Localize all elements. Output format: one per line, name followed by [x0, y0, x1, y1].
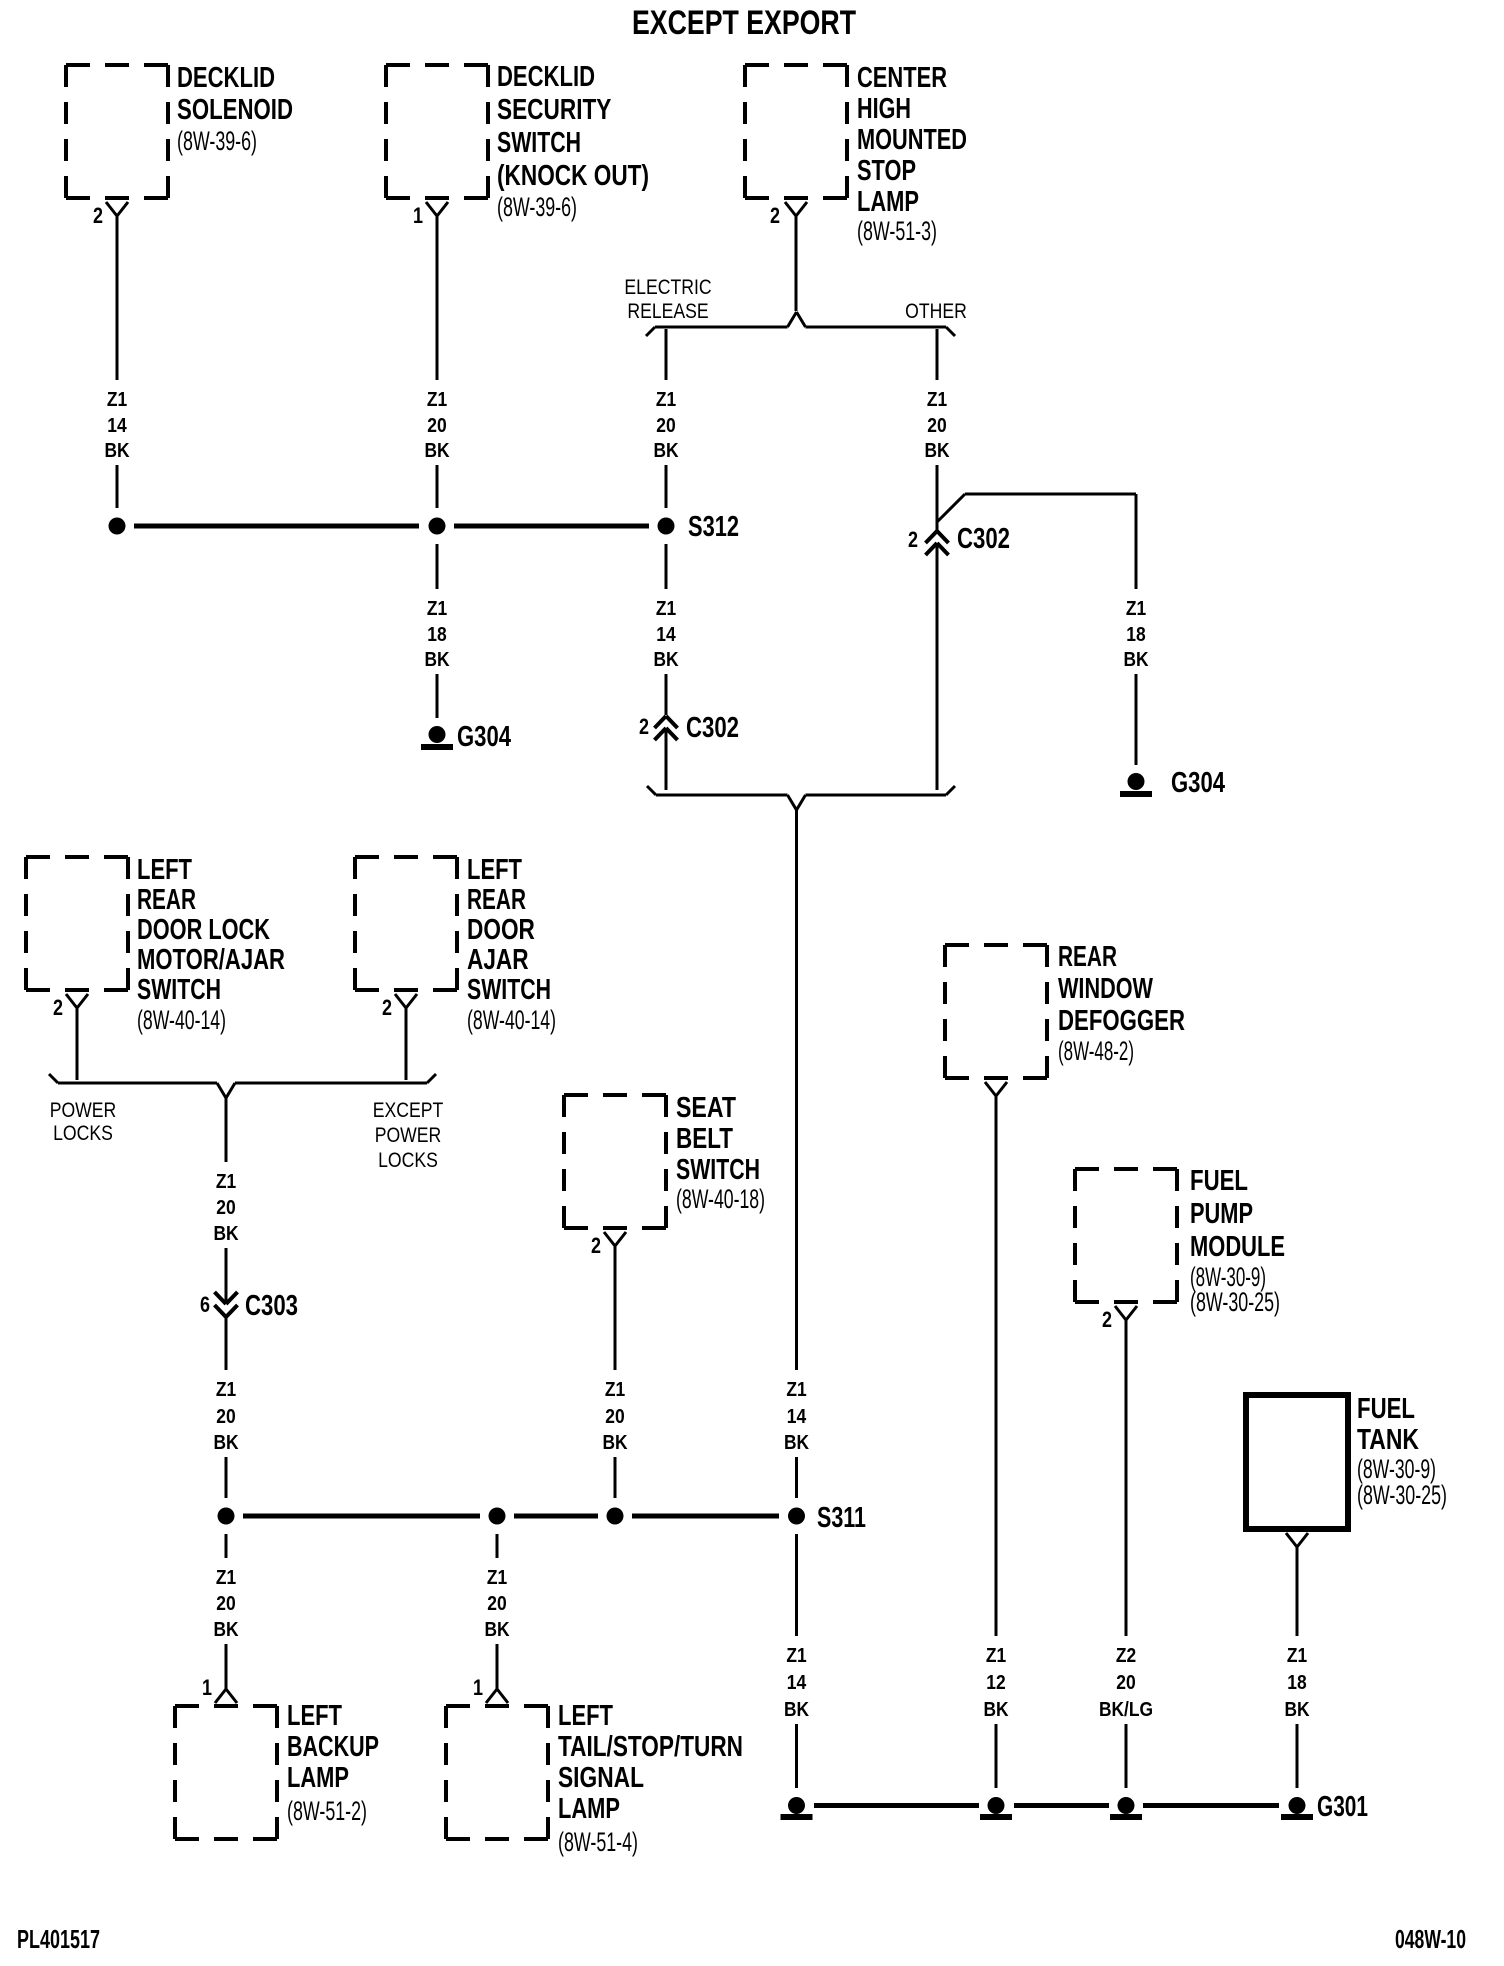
svg-text:REAR: REAR	[467, 884, 526, 916]
connector C303, pin 6	[200, 1290, 298, 1322]
svg-text:1: 1	[413, 203, 423, 228]
svg-text:Z1: Z1	[107, 389, 127, 411]
pin 2 of DECKLID SOLENOID	[93, 202, 128, 228]
svg-text:18: 18	[427, 624, 446, 646]
svg-text:LOCKS: LOCKS	[378, 1149, 438, 1172]
svg-text:BELT: BELT	[676, 1123, 733, 1155]
svg-text:20: 20	[427, 415, 446, 437]
svg-text:(8W-51-2): (8W-51-2)	[287, 1796, 367, 1826]
svg-text:6: 6	[200, 1292, 210, 1317]
svg-text:TANK: TANK	[1357, 1424, 1419, 1456]
pin 2 of LEFT REAR DOOR AJAR SWITCH	[382, 994, 417, 1020]
svg-text:20: 20	[216, 1197, 235, 1219]
svg-text:S312: S312	[688, 511, 739, 543]
footer page code 048W-10	[1395, 1924, 1466, 1954]
ground G304 (right)	[1121, 767, 1226, 799]
pin 1 of DECKLID SECURITY SWITCH	[413, 202, 448, 228]
svg-text:MODULE: MODULE	[1190, 1231, 1285, 1263]
branch wire from C302 to right ground run	[937, 494, 1136, 522]
ground symbol (defogger branch)	[981, 1797, 1012, 1820]
junction dot (backup lamp branch)	[218, 1508, 235, 1525]
svg-text:HIGH: HIGH	[857, 93, 911, 125]
splice S312	[658, 511, 740, 543]
svg-text:AJAR: AJAR	[467, 944, 529, 976]
svg-text:Z1: Z1	[927, 389, 947, 411]
svg-text:2: 2	[770, 203, 780, 228]
wire Z1 20 BK (bracket down to connector C303)	[213, 1096, 239, 1302]
svg-text:(8W-51-3): (8W-51-3)	[857, 216, 937, 246]
svg-text:14: 14	[656, 624, 676, 646]
svg-text:BK: BK	[424, 649, 450, 671]
wire Z1 20 BK (electric release branch down to S312)	[653, 329, 679, 508]
svg-text:DOOR: DOOR	[467, 914, 535, 946]
component box LEFT BACKUP LAMP	[175, 1700, 379, 1839]
svg-text:DEFOGGER: DEFOGGER	[1058, 1005, 1185, 1037]
pin of REAR WINDOW DEFOGGER	[985, 1082, 1007, 1096]
ground symbol (fuel pump branch)	[1111, 1797, 1142, 1820]
bus split bracket (electric release / other)	[646, 312, 955, 336]
svg-text:DECKLID: DECKLID	[497, 61, 595, 93]
svg-text:Z1: Z1	[1287, 1645, 1307, 1667]
wire Z1 18 BK (splice down to ground G304)	[424, 544, 450, 718]
svg-text:MOUNTED: MOUNTED	[857, 124, 967, 156]
svg-text:MOTOR/AJAR: MOTOR/AJAR	[137, 944, 285, 976]
svg-text:C302: C302	[686, 712, 739, 744]
svg-text:BK: BK	[784, 1699, 810, 1721]
wire Z1 20 BK (bus down to left tail/stop/turn lamp)	[484, 1534, 510, 1689]
svg-text:BK: BK	[213, 1619, 239, 1641]
wire from door ajar pin down to power-locks bracket	[405, 1008, 408, 1080]
svg-text:SWITCH: SWITCH	[497, 127, 581, 159]
svg-text:Z1: Z1	[216, 1379, 236, 1401]
svg-text:BK: BK	[1123, 649, 1149, 671]
svg-text:BK: BK	[213, 1432, 239, 1454]
svg-text:C303: C303	[245, 1290, 298, 1322]
svg-text:G304: G304	[1171, 767, 1225, 799]
svg-text:Z1: Z1	[986, 1645, 1006, 1667]
svg-text:OTHER: OTHER	[905, 300, 967, 323]
wire Z1 12 BK (defogger down to ground bus)	[983, 1096, 1009, 1788]
svg-text:SWITCH: SWITCH	[137, 974, 221, 1006]
label ELECTRIC RELEASE	[624, 276, 711, 323]
svg-text:2: 2	[53, 995, 63, 1020]
svg-text:Z1: Z1	[656, 389, 676, 411]
svg-text:BK: BK	[653, 440, 679, 462]
svg-text:BK: BK	[653, 649, 679, 671]
svg-text:048W-10: 048W-10	[1395, 1924, 1466, 1954]
svg-text:LEFT: LEFT	[558, 1700, 613, 1732]
component box DECKLID SOLENOID	[66, 62, 293, 198]
component box FUEL TANK	[1246, 1393, 1447, 1529]
svg-text:LAMP: LAMP	[287, 1762, 349, 1794]
svg-text:ELECTRIC: ELECTRIC	[624, 276, 711, 299]
footer sheet code PL401517	[17, 1924, 100, 1954]
svg-text:2: 2	[639, 714, 649, 739]
wire below C302 (other branch) to merge bracket	[936, 546, 939, 790]
svg-text:REAR: REAR	[1058, 941, 1117, 973]
junction dot (decklid security switch branch)	[429, 518, 446, 535]
connector C302 (on electric release branch), pin 2	[639, 712, 739, 744]
junction dot (seat belt branch)	[607, 1508, 624, 1525]
ground symbol (S311 branch)	[781, 1797, 812, 1820]
svg-text:POWER: POWER	[375, 1124, 442, 1147]
svg-text:Z1: Z1	[1126, 598, 1146, 620]
svg-text:BK: BK	[104, 440, 130, 462]
svg-text:DECKLID: DECKLID	[177, 62, 275, 94]
svg-text:LEFT: LEFT	[137, 854, 192, 886]
svg-text:2: 2	[93, 203, 103, 228]
wire Z2 20 BK/LG (fuel pump module down to ground bus)	[1099, 1320, 1153, 1788]
wire below C302 to merge bracket	[665, 731, 668, 790]
wire Z1 20 BK (bus down to left backup lamp)	[213, 1534, 239, 1689]
wire Z1 20 BK (other branch down to C302)	[924, 329, 950, 531]
svg-text:(8W-39-6): (8W-39-6)	[497, 192, 577, 222]
svg-text:BK: BK	[213, 1223, 239, 1245]
svg-text:WINDOW: WINDOW	[1058, 973, 1153, 1005]
junction dot (decklid solenoid branch)	[109, 518, 126, 535]
svg-text:SEAT: SEAT	[676, 1092, 736, 1124]
svg-text:LAMP: LAMP	[857, 186, 919, 218]
svg-text:(8W-51-4): (8W-51-4)	[558, 1827, 638, 1857]
svg-text:BK: BK	[424, 440, 450, 462]
svg-text:20: 20	[216, 1593, 235, 1615]
splice S311	[788, 1502, 866, 1534]
wire Z1 14 BK (S311 down to ground bus)	[784, 1534, 810, 1788]
wire Z1 14 BK (merge bracket down to splice S311)	[784, 808, 810, 1498]
wire Z1 20 BK (decklid security switch down to splice)	[424, 216, 450, 508]
component box LEFT TAIL/STOP/TURN SIGNAL LAMP	[446, 1700, 743, 1857]
svg-text:SIGNAL: SIGNAL	[558, 1762, 644, 1794]
svg-text:2: 2	[382, 995, 392, 1020]
bus wire splice row S311	[243, 1514, 779, 1519]
svg-text:TAIL/STOP/TURN: TAIL/STOP/TURN	[558, 1731, 743, 1763]
pin of FUEL TANK	[1286, 1533, 1308, 1547]
svg-text:EXCEPT EXPORT: EXCEPT EXPORT	[632, 4, 856, 42]
wire from door lock pin down to power-locks bracket	[76, 1008, 79, 1080]
pin 2 of SEAT BELT SWITCH	[591, 1232, 626, 1258]
svg-text:18: 18	[1287, 1672, 1306, 1694]
svg-text:Z1: Z1	[216, 1171, 236, 1193]
svg-text:18: 18	[1126, 624, 1145, 646]
svg-text:BK: BK	[602, 1432, 628, 1454]
svg-text:20: 20	[927, 415, 946, 437]
svg-text:BK: BK	[1284, 1699, 1310, 1721]
svg-text:SWITCH: SWITCH	[467, 974, 551, 1006]
svg-text:20: 20	[1116, 1672, 1135, 1694]
svg-text:(8W-30-25): (8W-30-25)	[1357, 1480, 1447, 1510]
wire Z1 20 BK (seat belt switch down to bottom bus)	[602, 1246, 628, 1498]
svg-text:POWER: POWER	[50, 1099, 117, 1122]
svg-text:14: 14	[787, 1406, 807, 1428]
svg-text:(8W-39-6): (8W-39-6)	[177, 126, 257, 156]
component box REAR WINDOW DEFOGGER	[945, 941, 1185, 1078]
component box DECKLID SECURITY SWITCH (KNOCK OUT)	[386, 61, 649, 222]
svg-text:14: 14	[107, 415, 127, 437]
svg-text:(8W-40-14): (8W-40-14)	[467, 1005, 556, 1035]
wire from CHMSL pin 2 down to split bracket	[795, 216, 798, 311]
svg-text:BK: BK	[983, 1699, 1009, 1721]
svg-text:SOLENOID: SOLENOID	[177, 94, 293, 126]
pin 1 of LEFT BACKUP LAMP	[202, 1675, 237, 1703]
svg-text:BK: BK	[924, 440, 950, 462]
svg-text:SWITCH: SWITCH	[676, 1154, 760, 1186]
svg-text:BK: BK	[484, 1619, 510, 1641]
wire Z1 18 BK (branch down to ground G304 right)	[1123, 494, 1149, 765]
svg-text:RELEASE: RELEASE	[627, 300, 708, 323]
svg-text:20: 20	[605, 1406, 624, 1428]
svg-text:Z1: Z1	[427, 389, 447, 411]
label OTHER	[905, 300, 967, 323]
svg-text:Z1: Z1	[487, 1567, 507, 1589]
svg-text:(8W-30-25): (8W-30-25)	[1190, 1287, 1280, 1317]
svg-text:(KNOCK OUT): (KNOCK OUT)	[497, 160, 649, 192]
svg-text:(8W-40-18): (8W-40-18)	[676, 1184, 765, 1214]
component box SEAT BELT SWITCH	[564, 1092, 765, 1228]
svg-text:FUEL: FUEL	[1357, 1393, 1415, 1425]
svg-text:G301: G301	[1317, 1791, 1368, 1823]
svg-text:CENTER: CENTER	[857, 62, 947, 94]
pin 2 of FUEL PUMP MODULE	[1102, 1306, 1137, 1332]
svg-text:DOOR LOCK: DOOR LOCK	[137, 914, 270, 946]
svg-text:S311: S311	[817, 1502, 866, 1534]
label POWER LOCKS	[50, 1099, 117, 1145]
title EXCEPT EXPORT	[632, 4, 856, 42]
svg-text:LEFT: LEFT	[287, 1700, 342, 1732]
svg-text:20: 20	[216, 1406, 235, 1428]
svg-text:PUMP: PUMP	[1190, 1198, 1253, 1230]
svg-text:1: 1	[202, 1675, 212, 1700]
bus wire splice row S312	[134, 524, 649, 529]
svg-text:C302: C302	[957, 523, 1010, 555]
component box FUEL PUMP MODULE	[1075, 1165, 1285, 1317]
wire Z1 14 BK (decklid solenoid down to splice)	[104, 216, 130, 508]
pin 2 of CENTER HIGH MOUNTED STOP LAMP	[770, 202, 807, 228]
svg-text:PL401517: PL401517	[17, 1924, 100, 1954]
svg-text:BK/LG: BK/LG	[1099, 1699, 1153, 1721]
svg-text:LEFT: LEFT	[467, 854, 522, 886]
svg-text:20: 20	[656, 415, 675, 437]
pin 1 of LEFT TAIL/STOP/TURN SIGNAL LAMP	[473, 1675, 508, 1703]
svg-text:Z1: Z1	[786, 1645, 806, 1667]
svg-text:14: 14	[787, 1672, 807, 1694]
svg-text:G304: G304	[457, 721, 511, 753]
bus merge bracket (power locks / except power locks)	[49, 1074, 436, 1098]
junction dot (tail lamp branch)	[489, 1508, 506, 1525]
svg-text:FUEL: FUEL	[1190, 1165, 1248, 1197]
component box LEFT REAR DOOR LOCK MOTOR/AJAR SWITCH	[26, 854, 285, 1035]
label EXCEPT POWER LOCKS	[373, 1099, 444, 1172]
svg-text:LAMP: LAMP	[558, 1793, 620, 1825]
connector C302 (on other branch), pin 2	[908, 523, 1010, 555]
svg-text:LOCKS: LOCKS	[53, 1122, 113, 1145]
svg-text:Z2: Z2	[1116, 1645, 1136, 1667]
svg-text:Z1: Z1	[427, 598, 447, 620]
svg-text:BK: BK	[784, 1432, 810, 1454]
wire Z1 20 BK (C303 down to bottom bus)	[213, 1317, 239, 1498]
svg-text:(8W-40-14): (8W-40-14)	[137, 1005, 226, 1035]
ground G304 (left)	[422, 721, 512, 753]
wire Z1 14 BK (S312 down to connector C302)	[653, 544, 679, 715]
component box LEFT REAR DOOR AJAR SWITCH	[355, 854, 556, 1035]
svg-text:2: 2	[591, 1233, 601, 1258]
svg-text:1: 1	[473, 1675, 483, 1700]
svg-text:20: 20	[487, 1593, 506, 1615]
svg-text:STOP: STOP	[857, 155, 916, 187]
svg-text:Z1: Z1	[656, 598, 676, 620]
svg-text:REAR: REAR	[137, 884, 196, 916]
svg-text:BACKUP: BACKUP	[287, 1731, 379, 1763]
bus merge bracket (branches rejoin)	[647, 786, 955, 810]
svg-text:Z1: Z1	[786, 1379, 806, 1401]
svg-text:EXCEPT: EXCEPT	[373, 1099, 444, 1122]
svg-text:(8W-48-2): (8W-48-2)	[1058, 1036, 1134, 1066]
wire Z1 18 BK (fuel tank down to ground G301)	[1284, 1547, 1310, 1788]
svg-text:SECURITY: SECURITY	[497, 94, 611, 126]
ground bus wire	[814, 1803, 1279, 1808]
ground G301	[1282, 1791, 1369, 1823]
pin 2 of LEFT REAR DOOR LOCK MOTOR/AJAR SWITCH	[53, 994, 88, 1020]
svg-text:2: 2	[1102, 1307, 1112, 1332]
svg-text:2: 2	[908, 527, 918, 552]
svg-text:Z1: Z1	[605, 1379, 625, 1401]
svg-text:12: 12	[986, 1672, 1005, 1694]
svg-text:Z1: Z1	[216, 1567, 236, 1589]
component box CENTER HIGH MOUNTED STOP LAMP	[745, 62, 967, 246]
